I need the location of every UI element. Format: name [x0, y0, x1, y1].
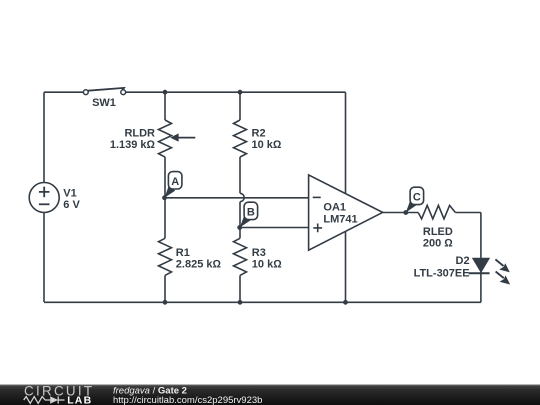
wire RLED to right rail: [455, 212, 481, 214]
LED light arrow 2: [496, 272, 511, 285]
label D2 value: [414, 255, 470, 279]
wire hop over node A wire: [240, 193, 244, 201]
svg-text:LM741: LM741: [323, 213, 357, 225]
junction dot top RLDR: [163, 90, 168, 95]
wire top rail left of SW1: [44, 91, 83, 93]
switch SW1: [83, 88, 125, 95]
svg-text:RLED: RLED: [423, 226, 453, 238]
wire left rail lower: [43, 213, 45, 303]
wire node B to R3 handled above, R3 to bottom rail: [239, 275, 241, 302]
footer logo resistor-diode glyph: [24, 396, 65, 403]
wire hop to node B: [239, 202, 241, 239]
wire op-amp supply vertical: [345, 92, 347, 302]
node B: [237, 202, 257, 230]
svg-text:R2: R2: [252, 128, 266, 140]
svg-text:10 kΩ: 10 kΩ: [252, 259, 282, 271]
junction dot bottom R3: [238, 300, 243, 305]
wire node B to op-amp non-inverting input: [240, 227, 309, 229]
wire bottom rail: [44, 301, 481, 303]
label R1 value: [176, 247, 222, 271]
svg-text:10 kΩ: 10 kΩ: [252, 139, 282, 151]
LED D2: [469, 258, 490, 273]
svg-text:D2: D2: [456, 255, 470, 267]
svg-text:1.139 kΩ: 1.139 kΩ: [110, 139, 156, 151]
svg-text:200 Ω: 200 Ω: [423, 237, 453, 249]
label RLED value: [423, 226, 453, 250]
svg-text:LTL-307EE: LTL-307EE: [414, 268, 470, 280]
junction dot top R2: [238, 90, 243, 95]
svg-text:R3: R3: [252, 247, 266, 259]
svg-text:B: B: [247, 207, 255, 219]
svg-text:R1: R1: [176, 247, 190, 259]
label OA1 value: [323, 201, 357, 225]
wire R2 bottom to hop: [239, 157, 241, 193]
footer bar: [0, 385, 540, 405]
voltage source V1: [29, 183, 59, 213]
svg-text:2.825 kΩ: 2.825 kΩ: [176, 259, 222, 271]
wire op-amp output to RLED: [383, 212, 419, 214]
node A: [162, 172, 182, 201]
svg-text:A: A: [171, 176, 179, 188]
RLDR wiper arrow: [170, 133, 195, 141]
svg-text:6 V: 6 V: [63, 199, 80, 211]
svg-text:RLDR: RLDR: [124, 128, 155, 140]
wire node A to op-amp inverting input: [165, 197, 309, 199]
wire R1 to bottom rail: [164, 275, 166, 302]
label RLDR value: [110, 128, 156, 152]
svg-text:V1: V1: [63, 187, 76, 199]
svg-text:C: C: [413, 192, 421, 204]
wire RLDR branch top: [164, 92, 166, 120]
svg-text:OA1: OA1: [323, 201, 346, 213]
wire left rail upper: [43, 92, 45, 182]
svg-text:LAB: LAB: [67, 394, 92, 405]
wire top rail right of SW1: [126, 91, 346, 93]
label R2 value: [252, 128, 282, 152]
LED light arrow 1: [495, 259, 509, 272]
resistor RLDR: [159, 120, 172, 157]
op-amp OA1: [309, 175, 383, 250]
svg-text:http://circuitlab.com/cs2p295r: http://circuitlab.com/cs2p295rv923b: [113, 395, 262, 405]
junction dot bottom op-amp supply: [343, 300, 348, 305]
node C: [403, 187, 423, 215]
resistor R2: [234, 120, 247, 157]
resistor R3: [234, 238, 247, 275]
label R3 value: [252, 247, 282, 271]
wire R2 branch top: [239, 92, 241, 120]
wire node A to R1: [164, 157, 166, 238]
svg-text:SW1: SW1: [92, 97, 116, 109]
junction dot bottom R1: [163, 300, 168, 305]
label V1 value: [63, 187, 80, 211]
wire right rail down through D2: [480, 213, 482, 303]
resistor RLED: [418, 205, 455, 219]
resistor R1: [159, 238, 172, 275]
